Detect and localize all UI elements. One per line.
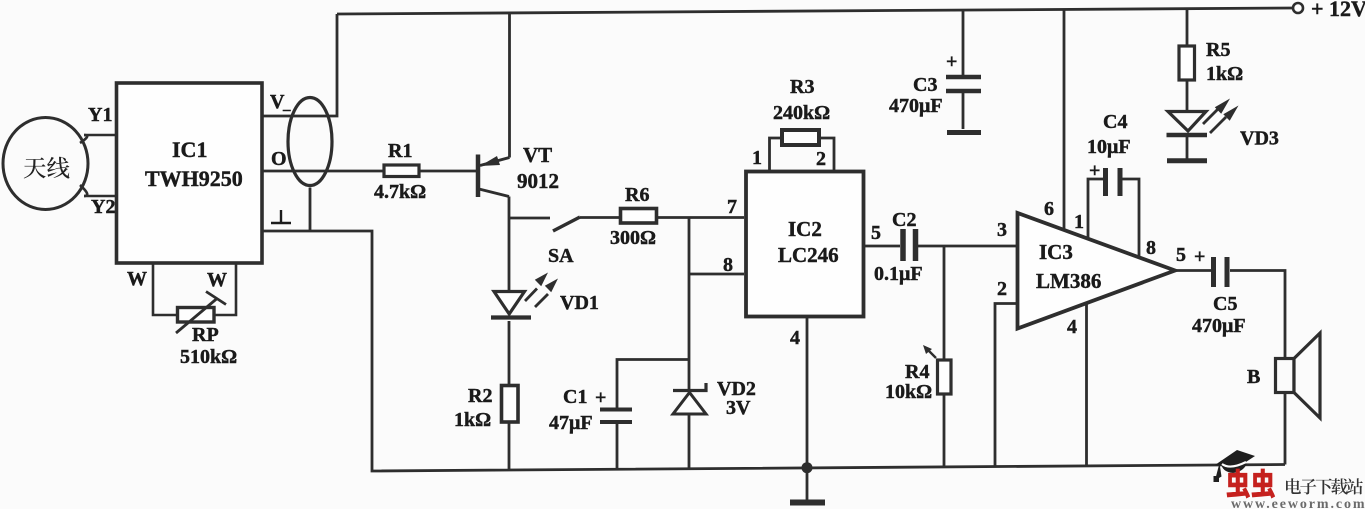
svg-text:3V: 3V: [726, 397, 751, 419]
svg-text:1kΩ: 1kΩ: [454, 409, 491, 431]
svg-text:1kΩ: 1kΩ: [1206, 63, 1243, 85]
svg-text:TWH9250: TWH9250: [145, 166, 243, 191]
svg-text:VT: VT: [523, 143, 552, 167]
svg-text:2: 2: [816, 148, 826, 170]
svg-text:8: 8: [723, 254, 733, 276]
svg-text:R1: R1: [388, 140, 412, 162]
svg-text:RP: RP: [192, 324, 219, 346]
svg-text:4: 4: [1067, 316, 1077, 338]
svg-text:+: +: [1089, 160, 1100, 182]
svg-text:VD3: VD3: [1240, 128, 1279, 150]
svg-text:IC3: IC3: [1039, 240, 1073, 264]
svg-text:IC2: IC2: [788, 217, 822, 241]
svg-text:470μF: 470μF: [1192, 315, 1246, 337]
svg-text:IC1: IC1: [172, 137, 207, 162]
svg-text:10kΩ: 10kΩ: [885, 381, 932, 403]
svg-text:www.eeworm.com: www.eeworm.com: [1231, 497, 1365, 509]
svg-text:W: W: [127, 268, 147, 290]
svg-text:VD1: VD1: [560, 292, 599, 314]
svg-text:B: B: [1247, 366, 1260, 388]
svg-text:R6: R6: [625, 184, 649, 206]
svg-text:10μF: 10μF: [1087, 136, 1131, 158]
svg-text:4: 4: [790, 327, 800, 349]
svg-text:LM386: LM386: [1036, 269, 1101, 293]
svg-text:7: 7: [727, 196, 737, 218]
svg-text:+: +: [1194, 246, 1205, 268]
svg-text:470μF: 470μF: [889, 95, 943, 117]
svg-text:R3: R3: [790, 76, 814, 98]
svg-text:4.7kΩ: 4.7kΩ: [374, 181, 426, 203]
svg-text:Y1: Y1: [88, 104, 112, 126]
svg-text:C5: C5: [1213, 293, 1237, 315]
svg-text:O: O: [271, 148, 287, 170]
svg-text:C1: C1: [563, 386, 587, 408]
svg-text:8: 8: [1146, 237, 1156, 259]
svg-text:2: 2: [997, 278, 1007, 300]
svg-text:3: 3: [997, 219, 1007, 241]
svg-text:6: 6: [1044, 198, 1054, 220]
svg-text:9012: 9012: [517, 169, 559, 193]
svg-text:C3: C3: [913, 74, 937, 96]
svg-text:SA: SA: [548, 245, 574, 267]
svg-text:W: W: [207, 269, 227, 291]
svg-text:240kΩ: 240kΩ: [773, 102, 830, 124]
svg-text:47μF: 47μF: [549, 412, 593, 434]
svg-text:–: –: [282, 102, 291, 118]
svg-text:1: 1: [1074, 211, 1084, 233]
svg-text:300Ω: 300Ω: [610, 227, 656, 249]
svg-text:+: +: [595, 387, 606, 409]
svg-text:+: +: [946, 51, 957, 73]
svg-text:C2: C2: [892, 209, 916, 231]
svg-text:5: 5: [871, 222, 881, 244]
svg-text:0.1μF: 0.1μF: [874, 263, 923, 285]
svg-text:LC246: LC246: [778, 243, 839, 267]
svg-text:R5: R5: [1206, 39, 1230, 61]
svg-text:1: 1: [752, 147, 762, 169]
svg-text:5: 5: [1176, 244, 1186, 266]
svg-text:+ 12V: + 12V: [1311, 0, 1365, 21]
svg-text:510kΩ: 510kΩ: [180, 346, 237, 368]
svg-text:R2: R2: [468, 385, 492, 407]
svg-text:C4: C4: [1103, 111, 1127, 133]
svg-text:Y2: Y2: [91, 196, 115, 218]
svg-text:R4: R4: [905, 361, 929, 383]
